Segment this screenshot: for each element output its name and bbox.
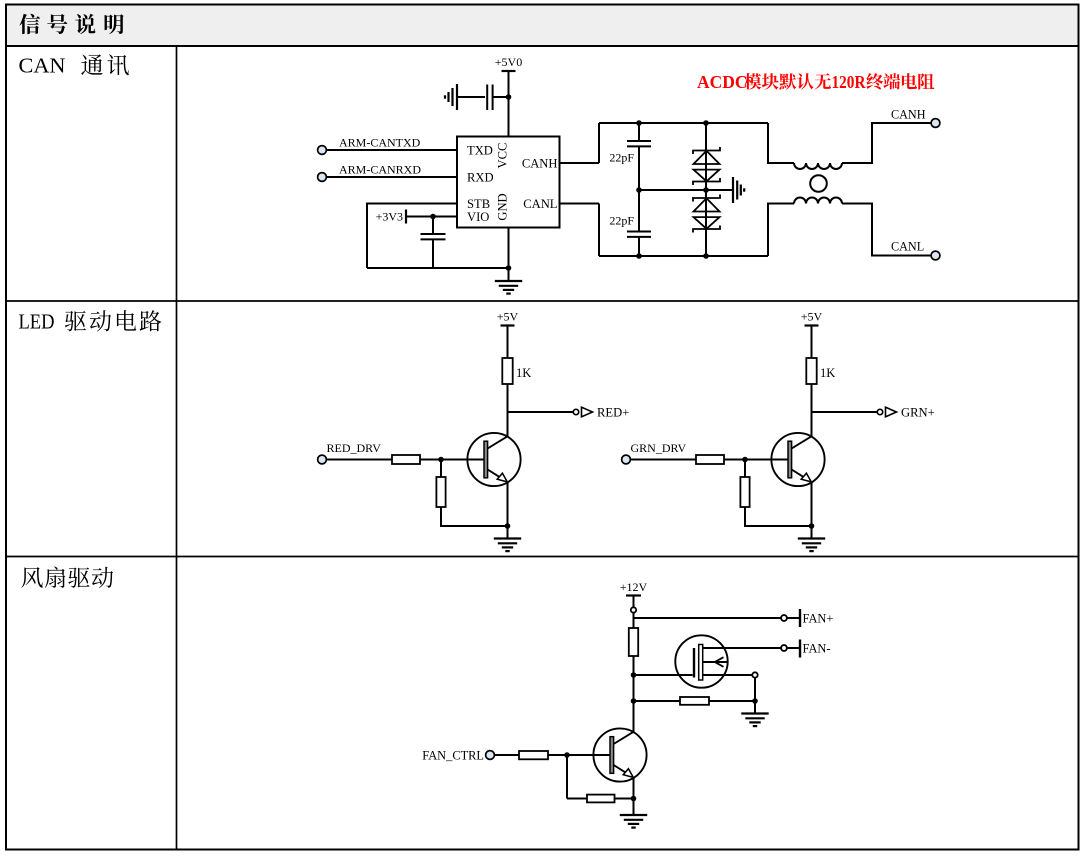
wire base (GRN): [745, 459, 788, 461]
ground (RED): [494, 539, 521, 552]
wire +3V3 to VIO: [406, 216, 457, 218]
wire U1 GND pin: [508, 228, 510, 269]
svg-text:+3V3: +3V3: [376, 210, 403, 224]
wire mid node to ground: [639, 189, 733, 191]
table column divider: [176, 46, 178, 850]
svg-text:+5V0: +5V0: [495, 55, 522, 69]
transistor Q (RED): [467, 433, 520, 486]
resistor base (RED): [392, 455, 420, 464]
power +12V bar: [626, 594, 641, 596]
wire emitter (RED): [507, 482, 509, 526]
capacitor C1 decoupling: [487, 85, 492, 111]
svg-text:ACDC: ACDC: [697, 72, 748, 92]
note ACDC no 120R text: [697, 72, 934, 92]
wire +5V0 to IC VCC: [508, 71, 510, 137]
resistor 1K (GRN): [806, 358, 816, 384]
port triangle GRN+: [886, 407, 897, 417]
wire base to pulldown (GRN): [744, 460, 746, 478]
junction gate node: [631, 672, 637, 678]
ground for source: [741, 714, 768, 727]
wire C2 bottom: [432, 239, 434, 268]
wire TVS column: [705, 123, 707, 256]
wire pulldown to emitter node (GRN): [745, 507, 812, 526]
svg-text:RXD: RXD: [467, 171, 494, 185]
svg-text:CAN: CAN: [19, 54, 66, 78]
svg-text:120R: 120R: [832, 72, 866, 92]
table row line 3: [6, 556, 1079, 558]
ring FAN+: [781, 615, 787, 621]
wire FAN_CTRL to resistor: [495, 754, 520, 756]
diode D1 TVS (top pair): [693, 147, 720, 185]
svg-text:ARM-CANTXD: ARM-CANTXD: [339, 136, 421, 150]
svg-text:1K: 1K: [516, 366, 531, 380]
wire Q2 base: [567, 754, 610, 756]
wire base to pulldown (RED): [440, 460, 442, 478]
resistor pulldown (GRN): [740, 477, 749, 507]
wire resistor to base node (GRN): [724, 459, 745, 461]
svg-text:GND: GND: [496, 193, 510, 220]
terminal bar FAN-: [799, 640, 801, 658]
resistor R gate pulldown: [680, 697, 709, 705]
svg-text:22pF: 22pF: [609, 151, 634, 165]
wire C4 bottom: [638, 237, 640, 256]
wire CANH rail riser: [598, 123, 600, 163]
svg-text:ARM-CANRXD: ARM-CANRXD: [339, 163, 421, 177]
svg-text:GRN+: GRN+: [901, 406, 935, 420]
transistor Q (GRN): [771, 433, 824, 486]
wire base (RED): [441, 459, 484, 461]
wire Q2 ground stub: [633, 799, 635, 816]
svg-text:VCC: VCC: [496, 143, 510, 169]
wire port to resistor (GRN): [631, 459, 697, 461]
row label CAN 通讯: [19, 54, 129, 78]
power +5V bar (GRN): [805, 324, 819, 326]
wire ring to FAN+ bar: [787, 617, 799, 619]
ground for Q2: [620, 815, 647, 828]
wire cap to ground: [457, 96, 485, 98]
wire +5V to R (RED): [507, 326, 509, 359]
junction GND rail: [506, 265, 512, 271]
port CANL: [931, 251, 940, 260]
wire ARM-CANTXD to TXD: [327, 149, 458, 151]
power +5V0 bar: [502, 70, 516, 72]
junction Q2 emitter node: [631, 796, 637, 802]
table header underline: [6, 45, 1079, 47]
ground (right-pointing) mid: [733, 177, 744, 203]
wire ground stub (GRN): [811, 526, 813, 539]
junction bottom rail / C4: [636, 253, 642, 259]
svg-text:TXD: TXD: [467, 144, 493, 158]
wire gate node to Rgd: [634, 700, 681, 702]
svg-text:RED_DRV: RED_DRV: [327, 441, 382, 455]
junction top rail / D1: [703, 120, 709, 126]
wire C3 to mid node: [638, 146, 640, 190]
table row line 2: [6, 300, 1079, 302]
wire C4 top: [638, 190, 640, 231]
inductor L1a choke winding top: [794, 163, 842, 169]
junction gate resistor node: [631, 698, 637, 704]
wire gate: [634, 674, 693, 676]
svg-text:LED: LED: [19, 310, 55, 334]
diode D2 TVS (bottom pair): [693, 195, 720, 233]
junction source/ground: [752, 698, 758, 704]
junction emitter node (RED): [505, 523, 511, 529]
wire CANH from U1: [560, 162, 600, 164]
ring junction +12V: [631, 607, 636, 612]
ring FAN-: [781, 645, 787, 651]
svg-text:FAN_CTRL: FAN_CTRL: [422, 749, 484, 763]
svg-text:+5V: +5V: [801, 310, 823, 324]
header title 信号说明: [19, 14, 123, 34]
wire CAN ground rail: [367, 267, 509, 269]
port ARM-CANTXD: [318, 146, 327, 155]
svg-text:FAN-: FAN-: [803, 642, 831, 656]
wire +5V to R (GRN): [811, 326, 813, 359]
wire ground stub (RED): [507, 526, 509, 539]
svg-text:CANL: CANL: [523, 197, 557, 211]
wire bottom rail to choke: [768, 204, 794, 257]
svg-text:STB: STB: [467, 197, 490, 211]
inductor core circle: [810, 175, 827, 192]
port CANH: [931, 119, 940, 128]
svg-text:22pF: 22pF: [609, 214, 634, 228]
wire R to collector node (GRN): [811, 384, 813, 437]
wire STB to ground rail: [367, 204, 457, 269]
svg-text:+5V: +5V: [497, 310, 519, 324]
resistor R gate pull-up: [629, 628, 638, 656]
wire cap to +5V0 node: [493, 96, 509, 98]
wire top rail CANH: [599, 122, 768, 124]
resistor base (GRN): [696, 455, 724, 464]
op-amp U1 CAN transceiver body: [457, 137, 560, 228]
svg-text:VIO: VIO: [467, 210, 489, 224]
junction bottom rail / D2: [703, 253, 709, 259]
wire top rail to choke: [768, 123, 794, 163]
svg-text:1K: 1K: [820, 366, 835, 380]
svg-text:RED+: RED+: [597, 406, 629, 420]
junction mid node TVS: [703, 187, 709, 193]
resistor Q2 base pulldown: [587, 795, 615, 803]
wire port to resistor (RED): [327, 459, 393, 461]
wire CANL rail drop: [598, 204, 600, 257]
port GRN_DRV: [622, 455, 631, 464]
wire bottom rail CANL: [599, 255, 768, 257]
power +3V3 bar: [405, 210, 407, 224]
junction top rail / C3: [636, 120, 642, 126]
transistor Q1 MOSFET: [675, 635, 781, 687]
svg-text:GRN_DRV: GRN_DRV: [631, 441, 687, 455]
ground for U1: [495, 281, 522, 294]
svg-text:+12V: +12V: [620, 580, 648, 594]
wire CANL from U1: [560, 203, 600, 205]
wire choke to CANH port: [842, 123, 932, 163]
wire R to gate node: [633, 656, 635, 675]
wire down to Q2 collector: [633, 701, 635, 732]
port triangle RED+: [582, 407, 593, 417]
wire to output port (GRN): [812, 411, 878, 413]
capacitor C4 22pF: [627, 232, 651, 237]
wire source down: [754, 678, 756, 701]
power +5V bar (RED): [501, 324, 515, 326]
junction +5V0/cap: [506, 94, 512, 100]
U1 pin labels: [467, 143, 558, 225]
wire gate node down: [633, 675, 635, 701]
table header band: [7, 6, 1078, 46]
wire +12V down: [633, 596, 635, 608]
wire R to collector node (RED): [507, 384, 509, 437]
ground (left-pointing) for C1: [445, 84, 457, 110]
row label LED 驱动电路: [19, 310, 162, 334]
junction emitter node (GRN): [809, 523, 815, 529]
ground (GRN): [798, 539, 825, 552]
capacitor C3 22pF: [627, 141, 651, 146]
wire pulldown left: [567, 798, 587, 800]
terminal bar FAN+: [799, 609, 801, 627]
wire C2 top: [432, 217, 434, 234]
wire ARM-CANRXD to RXD: [327, 176, 458, 178]
wire source ground stub: [754, 701, 756, 714]
wire ground stub: [508, 268, 510, 281]
resistor 1K (RED): [502, 358, 512, 384]
wire base pulldown drop: [566, 755, 568, 799]
resistor Q2 base: [519, 751, 548, 759]
svg-text:FAN+: FAN+: [803, 612, 834, 626]
wire C3 top: [638, 123, 640, 141]
wire pulldown to emitter node (RED): [441, 507, 508, 526]
wire Rgd to source node: [709, 700, 755, 702]
ring source: [752, 672, 757, 677]
junction mid node caps: [636, 187, 642, 193]
inductor L1b choke winding bottom: [794, 198, 842, 204]
svg-text:CANH: CANH: [522, 157, 558, 171]
svg-text:CANH: CANH: [891, 108, 926, 122]
wire to FAN+ port: [634, 617, 782, 619]
port ring RED+: [573, 409, 578, 414]
wire to output port (RED): [508, 411, 574, 413]
wire pulldown right: [615, 798, 634, 800]
junction base node (GRN): [742, 457, 748, 463]
junction +3V3/C2: [430, 214, 436, 220]
row label 风扇驱动: [21, 567, 113, 588]
resistor pulldown (RED): [436, 477, 445, 507]
wire resistor to base node (fan): [548, 754, 567, 756]
port ring GRN+: [877, 409, 882, 414]
wire to R top: [633, 613, 635, 628]
transistor Q2 NPN fan driver: [593, 728, 646, 781]
wire resistor to base node (RED): [420, 459, 441, 461]
wire ring to FAN- bar: [787, 647, 799, 649]
junction base node (RED): [438, 457, 444, 463]
junction Q2 base node: [564, 752, 570, 758]
wire Q2 emitter: [633, 778, 635, 799]
wire choke to CANL port: [842, 204, 932, 256]
port ARM-CANRXD: [318, 173, 327, 182]
port FAN_CTRL: [486, 751, 495, 760]
port RED_DRV: [318, 455, 327, 464]
wire emitter (GRN): [811, 482, 813, 526]
capacitor C2 3V3 filter: [421, 234, 446, 239]
svg-text:CANL: CANL: [891, 240, 924, 254]
